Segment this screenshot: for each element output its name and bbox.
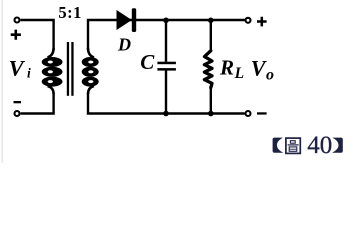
svg-text:C: C bbox=[140, 50, 155, 74]
node capacitor top bbox=[163, 18, 169, 24]
faint page border line left bbox=[1, 0, 4, 163]
svg-text:o: o bbox=[266, 67, 274, 84]
resistor RL bbox=[204, 20, 212, 114]
svg-text:D: D bbox=[117, 35, 131, 55]
svg-text:V: V bbox=[9, 55, 26, 80]
caption bracket left 【 bbox=[273, 138, 284, 153]
svg-text:L: L bbox=[234, 65, 244, 82]
minus sign left bbox=[14, 101, 22, 103]
plus sign left bbox=[11, 30, 21, 40]
node resistor top bbox=[208, 18, 214, 24]
svg-text:R: R bbox=[219, 55, 234, 79]
wire top-left to transformer primary bbox=[21, 20, 54, 50]
terminal bottom-right (- output) bbox=[246, 111, 251, 116]
svg-text:40: 40 bbox=[307, 132, 332, 159]
terminal bottom-left (- input) bbox=[15, 111, 20, 116]
terminal top-right (+ output) bbox=[246, 18, 251, 23]
transformer T1 primary coil bbox=[42, 48, 63, 94]
plus sign right bbox=[257, 17, 267, 27]
node capacitor bottom bbox=[163, 111, 169, 117]
svg-text:5:1: 5:1 bbox=[58, 3, 82, 22]
wire transformer secondary top to output bbox=[88, 20, 245, 50]
minus sign right bbox=[257, 112, 267, 114]
caption character 圖 bbox=[286, 138, 300, 153]
wire transformer secondary bottom to output bbox=[88, 93, 245, 114]
transformer T1 core bbox=[67, 42, 69, 96]
diode D bbox=[117, 8, 137, 32]
node resistor bottom bbox=[208, 111, 214, 117]
transformer T1 secondary coil bbox=[82, 48, 99, 94]
capacitor C bbox=[157, 20, 176, 114]
svg-text:i: i bbox=[27, 66, 31, 81]
caption bracket right 】 bbox=[332, 138, 343, 153]
wire bottom-left to transformer primary bbox=[21, 93, 54, 114]
terminal top-left (+ input) bbox=[15, 18, 20, 23]
